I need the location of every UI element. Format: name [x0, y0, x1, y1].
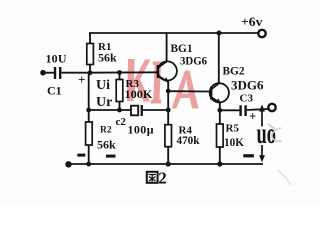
- wire C1 to node A: [61, 72, 90, 74]
- svg-text:10U: 10U: [46, 52, 67, 66]
- node junction on rail (BG2 collector): [217, 31, 222, 36]
- wire C3 to output terminal: [247, 109, 269, 110]
- label minus output: [243, 154, 254, 157]
- svg-text:C1: C1: [47, 84, 62, 98]
- node junction R3 top: [117, 70, 122, 75]
- svg-text:3DG6: 3DG6: [231, 79, 264, 93]
- label minus left: [77, 154, 85, 157]
- svg-text:Ui: Ui: [96, 78, 110, 93]
- svg-text:Ur: Ur: [96, 95, 112, 110]
- svg-text:470k: 470k: [177, 133, 200, 147]
- svg-text:R2: R2: [100, 126, 112, 136]
- wire output (emitter to C3): [220, 109, 240, 111]
- wire BG1 collector to rail: [166, 33, 168, 62]
- svg-text:56k: 56k: [97, 138, 116, 152]
- node R5 ground junction: [217, 161, 222, 166]
- resistor R5: [217, 110, 245, 164]
- resistor R4: [165, 110, 200, 164]
- resistor R3: [116, 73, 152, 111]
- resistor R2: [86, 110, 116, 164]
- capacitor C2: [116, 105, 154, 137]
- +6V supply terminal: [241, 14, 266, 37]
- svg-text:R5: R5: [226, 123, 240, 135]
- ground rail: [68, 163, 263, 165]
- transistor BG2: [210, 66, 264, 104]
- resistor R1: [87, 33, 117, 73]
- wire input to C1: [43, 72, 54, 74]
- label minus mid: [106, 155, 116, 158]
- wire node A down to node B: [88, 73, 90, 110]
- node B junction dot: [86, 108, 91, 113]
- svg-text:C3: C3: [240, 93, 254, 105]
- output terminal: [268, 104, 275, 111]
- svg-text:+: +: [78, 72, 85, 87]
- ground terminal dot: [65, 161, 71, 167]
- wire top +6V rail: [89, 32, 258, 34]
- node R2 ground junction: [86, 162, 91, 167]
- svg-text:BG2: BG2: [223, 66, 245, 78]
- wire BG2 emitter down: [219, 103, 221, 111]
- svg-text:10K: 10K: [224, 135, 245, 149]
- node BG2 emitter junction: [217, 108, 222, 113]
- wire node B to C2: [89, 109, 132, 111]
- decorative watermark (not labelled as component): [127, 59, 199, 109]
- input terminal dot: [40, 70, 46, 76]
- node A junction dot: [88, 70, 93, 75]
- svg-text:3DG6: 3DG6: [180, 54, 207, 68]
- wire node A to BG1 base: [90, 71, 158, 73]
- wire BG1 emitter down: [167, 82, 169, 111]
- node uo arrow: [257, 105, 277, 163]
- svg-text:+6v: +6v: [241, 14, 263, 29]
- wire BG1 emitter to BG2 base: [168, 90, 211, 92]
- decorative scan artifacts: [268, 124, 291, 185]
- svg-text:c2: c2: [116, 116, 127, 128]
- svg-text:2: 2: [158, 169, 167, 188]
- transistor BG1: [158, 43, 207, 83]
- wire BG2 collector to rail: [218, 33, 220, 84]
- node R4 ground junction: [166, 161, 171, 166]
- node junction R3 bottom: [117, 108, 122, 113]
- capacitor C1: [46, 52, 86, 98]
- caption 图2: [147, 169, 167, 188]
- node BG1 emitter junction: [166, 89, 171, 94]
- svg-text:56k: 56k: [98, 51, 117, 65]
- capacitor C3: [239, 93, 256, 124]
- svg-text:100μ: 100μ: [128, 123, 154, 137]
- wire C2 to emitter line: [143, 109, 168, 111]
- node junction emitter line / output wire: [166, 108, 171, 113]
